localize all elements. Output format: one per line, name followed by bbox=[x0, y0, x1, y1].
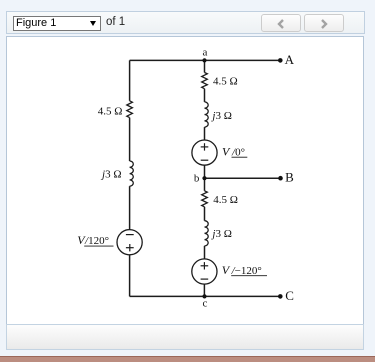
source left V/120 circle bbox=[117, 230, 142, 255]
svg-text:B: B bbox=[285, 170, 294, 185]
svg-text:4.5 Ω: 4.5 Ω bbox=[98, 105, 123, 117]
wire mid branch source to node b bbox=[204, 165, 206, 178]
source mid-top minus sign bbox=[201, 159, 209, 161]
svg-text:a: a bbox=[202, 47, 207, 59]
node a junction dot bbox=[202, 58, 206, 62]
prev button bbox=[261, 14, 301, 32]
svg-text:A: A bbox=[285, 52, 295, 67]
source mid-top plus sign bbox=[201, 146, 209, 148]
underline of left source angle bbox=[84, 245, 113, 247]
svg-text:c: c bbox=[203, 297, 208, 309]
svg-text:4.5 Ω: 4.5 Ω bbox=[213, 76, 238, 88]
inductor left j3 ohm bbox=[130, 161, 134, 186]
wire mid branch resistor to inductor bbox=[204, 89, 206, 102]
svg-text:j3 Ω: j3 Ω bbox=[210, 228, 232, 240]
wire left branch upper bbox=[129, 60, 131, 100]
svg-text:j3 Ω: j3 Ω bbox=[100, 169, 122, 181]
terminal A dot bbox=[278, 58, 283, 63]
figure select dropdown bbox=[13, 16, 101, 31]
svg-text:C: C bbox=[285, 288, 294, 303]
wire left branch lower bbox=[129, 255, 131, 297]
source mid-bottom plus sign bbox=[201, 265, 209, 267]
svg-text:V: V bbox=[222, 144, 231, 158]
source left minus sign bbox=[126, 234, 134, 236]
wire mid branch lower inductor to source bbox=[204, 246, 206, 259]
wire left branch between resistor and inductor bbox=[129, 118, 131, 161]
toolbar bbox=[6, 11, 365, 34]
wire bottom rail from left corner through node c to terminal C bbox=[130, 295, 281, 297]
wire top rail from left corner through node a to terminal A bbox=[130, 59, 281, 61]
svg-text:V: V bbox=[222, 263, 231, 277]
footer bar bbox=[6, 324, 364, 350]
svg-text:4.5 Ω: 4.5 Ω bbox=[213, 194, 238, 206]
wire mid branch source to node c bbox=[203, 284, 205, 296]
svg-text:b: b bbox=[194, 173, 200, 185]
next button bbox=[304, 14, 344, 32]
svg-text:/0°: /0° bbox=[231, 146, 245, 158]
node c junction dot bbox=[202, 294, 206, 298]
terminal C dot bbox=[278, 294, 283, 299]
node b junction dot bbox=[202, 176, 206, 180]
wire mid branch inductor to source bbox=[204, 127, 206, 140]
underline of mid-bottom source angle bbox=[231, 275, 267, 277]
maroon bottom band bbox=[0, 356, 375, 362]
wire mid branch node a to resistor bbox=[204, 60, 206, 72]
figure panel bbox=[6, 36, 364, 325]
resistor mid-bottom 4.5 ohm bbox=[202, 191, 208, 207]
source left plus sign bbox=[126, 247, 134, 249]
wire node b to terminal B bbox=[205, 177, 281, 179]
svg-text:/120°: /120° bbox=[84, 235, 109, 247]
underline of mid-top source angle bbox=[232, 156, 248, 158]
source mid-bottom minus sign bbox=[201, 278, 209, 280]
svg-text:j3 Ω: j3 Ω bbox=[210, 110, 232, 122]
inductor mid-top j3 ohm bbox=[205, 102, 209, 127]
wire node b down to resistor bbox=[204, 178, 206, 191]
wire left branch between inductor and source bbox=[129, 186, 131, 229]
source mid-top V/0 circle bbox=[192, 140, 217, 165]
resistor left 4.5 ohm bbox=[127, 101, 133, 118]
terminal B dot bbox=[278, 176, 283, 181]
resistor mid-top 4.5 ohm bbox=[202, 73, 208, 89]
inductor mid-bottom j3 ohm bbox=[205, 221, 209, 246]
source mid-bottom V/-120 circle bbox=[192, 259, 217, 284]
svg-text:/−120°: /−120° bbox=[231, 265, 262, 277]
wire mid branch lower resistor to inductor bbox=[204, 207, 206, 221]
